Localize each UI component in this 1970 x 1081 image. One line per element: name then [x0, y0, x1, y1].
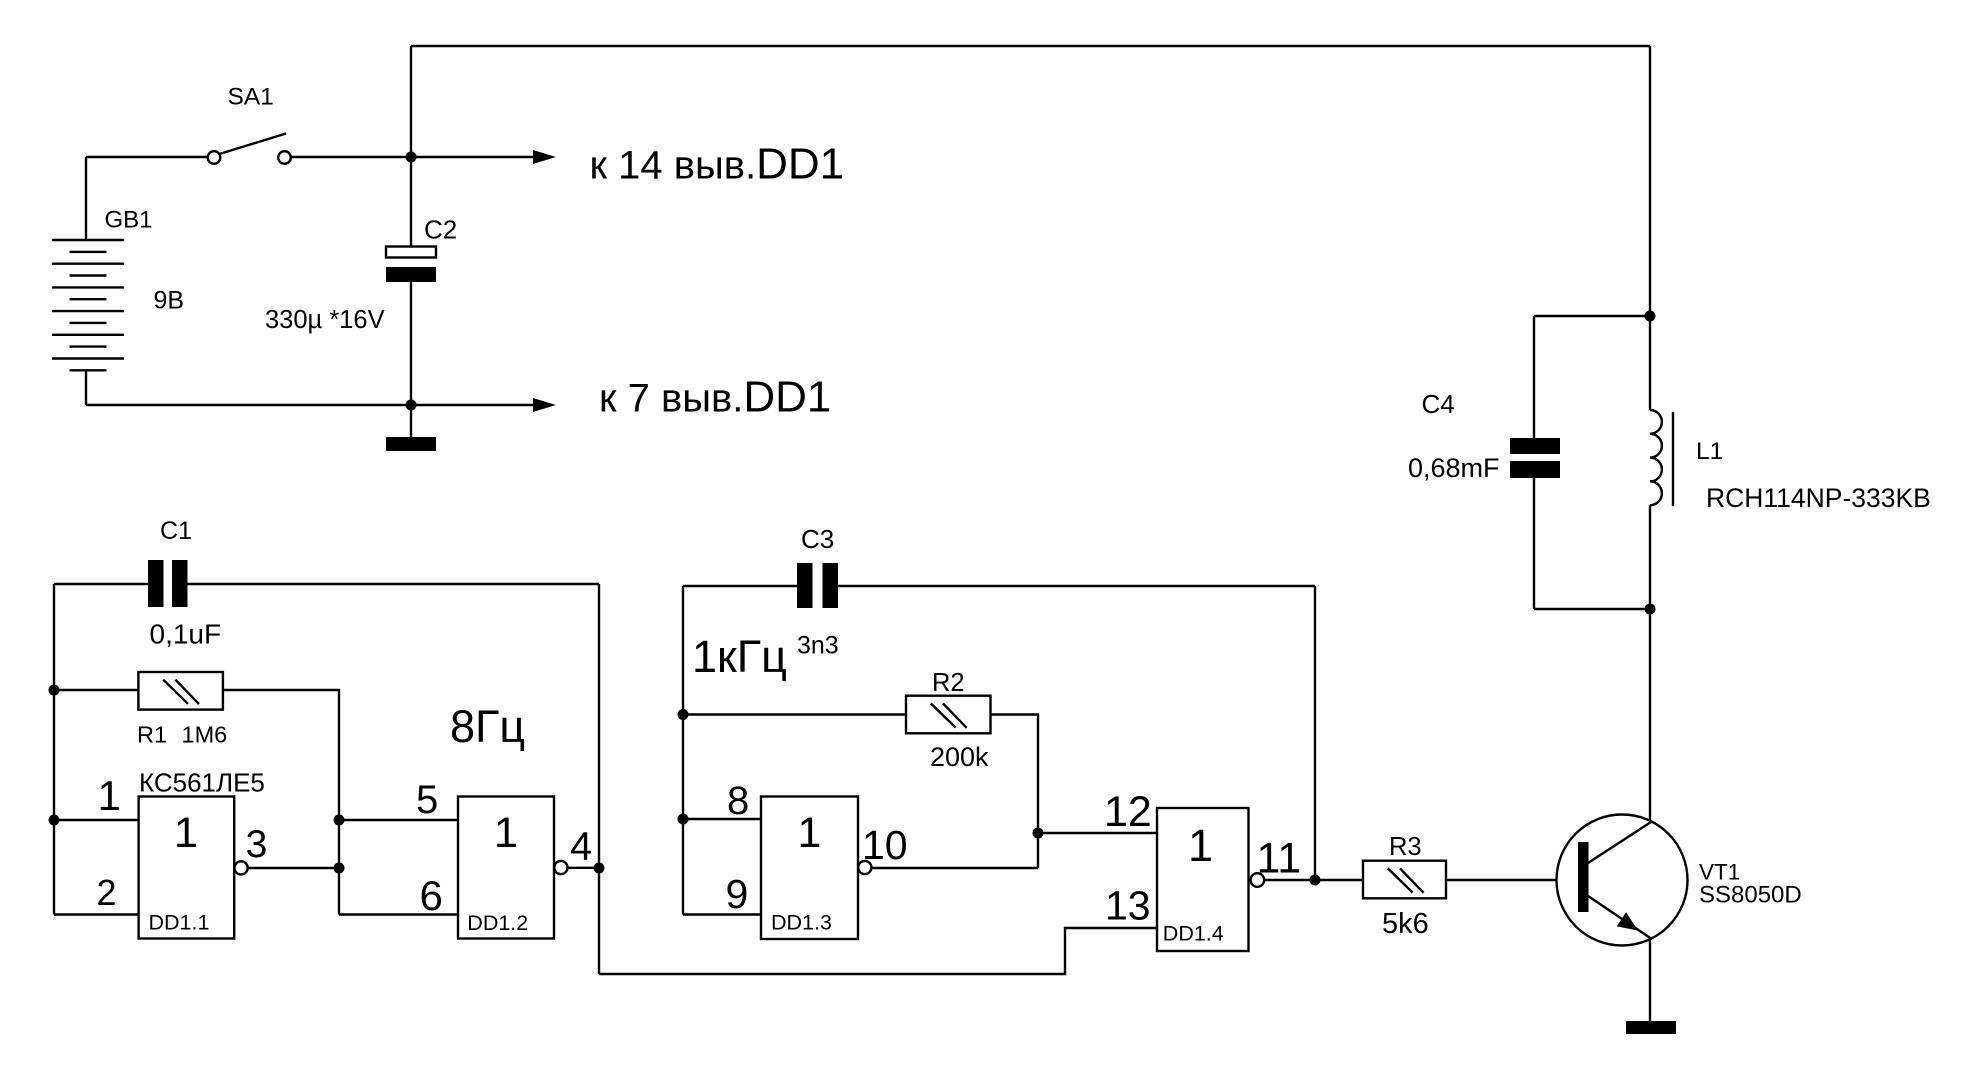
ground below C2 [386, 437, 436, 451]
wire top rail drop to node A [410, 46, 412, 157]
wire C1 right lead [188, 583, 600, 585]
wire R1 left lead [54, 689, 138, 691]
node K junction [1033, 828, 1044, 839]
node A junction [406, 152, 417, 163]
svg-text:8Гц: 8Гц [450, 701, 525, 752]
svg-text:GB1: GB1 [105, 207, 153, 234]
node F junction [49, 815, 60, 826]
wire pin4 to node [568, 867, 599, 869]
svg-text:0,1uF: 0,1uF [150, 619, 222, 650]
svg-text:C4: C4 [1422, 389, 1455, 419]
switch SA1 [208, 134, 291, 164]
capacitor C1 [148, 560, 188, 607]
bubble pin 11 [1251, 873, 1265, 887]
wire osc2 left vertical [682, 586, 684, 915]
arrow to 14 pin DD1 [533, 150, 556, 164]
wire pin8 [683, 818, 761, 820]
svg-text:DD1.3: DD1.3 [771, 911, 832, 935]
wire pin9 [683, 913, 761, 915]
node L junction [678, 814, 689, 825]
node G junction [334, 815, 345, 826]
node M junction [1310, 875, 1321, 886]
svg-text:C3: C3 [801, 524, 834, 554]
svg-text:R1: R1 [137, 722, 167, 748]
svg-text:9: 9 [726, 871, 749, 917]
capacitor C2 [386, 247, 436, 283]
bubble pin 3 [235, 861, 248, 874]
wire bottom link to pin13 [599, 928, 1157, 974]
svg-text:3: 3 [246, 823, 268, 866]
svg-text:1: 1 [174, 809, 198, 857]
wire R3 to base [1446, 879, 1578, 881]
wire pin1 [54, 819, 139, 821]
wire right rail down [1649, 46, 1651, 316]
svg-text:C2: C2 [424, 215, 457, 245]
gate DD1.3 [761, 797, 858, 940]
wire emitter lead [1649, 939, 1651, 1022]
svg-text:6: 6 [420, 872, 443, 919]
gate DD1.2 [458, 797, 554, 939]
wire osc1 left vertical [53, 584, 55, 915]
svg-text:5k6: 5k6 [1382, 908, 1429, 940]
wire C1 left lead [54, 583, 148, 585]
svg-text:SA1: SA1 [228, 84, 274, 111]
svg-text:5: 5 [416, 778, 438, 822]
wire R1 right lead [222, 690, 339, 915]
wire C2 to node B [410, 282, 412, 405]
svg-text:0,68mF: 0,68mF [1408, 453, 1500, 483]
resistor R2 [906, 696, 991, 734]
svg-text:4: 4 [570, 825, 592, 869]
transistor VT1 [1557, 815, 1688, 946]
wire collector lead [1649, 609, 1651, 822]
svg-text:к 7 выв.DD1: к 7 выв.DD1 [599, 373, 831, 422]
svg-text:200k: 200k [930, 742, 989, 772]
svg-text:330µ *16V: 330µ *16V [265, 306, 385, 334]
bubble pin 4 [554, 861, 567, 874]
wire pin6 [339, 913, 459, 915]
wire C3 right lead [838, 585, 1315, 587]
node D junction [1645, 604, 1656, 615]
svg-text:R2: R2 [932, 669, 965, 697]
wire pin3 to node [248, 867, 339, 869]
arrow to 7 pin DD1 [533, 398, 556, 412]
wire C3 left lead [683, 585, 797, 587]
svg-text:RCH114NP-333KB: RCH114NP-333KB [1706, 483, 1931, 513]
wire pin2 [54, 913, 139, 915]
svg-text:SS8050D: SS8050D [1699, 882, 1802, 909]
node J junction [678, 709, 689, 720]
wire R2 right lead [990, 715, 1038, 869]
wire pin5 [339, 819, 459, 821]
wire pin11 to R3 [1264, 879, 1363, 881]
svg-text:DD1.1: DD1.1 [149, 911, 210, 935]
capacitor C3 [797, 563, 838, 608]
svg-text:1M6: 1M6 [182, 722, 228, 748]
wire osc1 right vertical [598, 584, 600, 974]
svg-text:C1: C1 [160, 517, 192, 545]
wire pin12 [1038, 832, 1157, 834]
svg-text:DD1.2: DD1.2 [467, 911, 528, 935]
svg-text:2: 2 [97, 872, 117, 913]
battery GB1 [52, 157, 124, 405]
svg-text:к 14 выв.DD1: к 14 выв.DD1 [590, 140, 845, 189]
node I junction [594, 863, 605, 874]
wire C4 top link [1534, 315, 1650, 317]
wire osc2 right vertical [1314, 586, 1316, 880]
bubble pin 10 [858, 861, 871, 874]
wire switch to node A [291, 156, 535, 158]
wire C4 bottom link [1534, 608, 1650, 610]
wire node B to ground [410, 405, 412, 437]
gate DD1.1 [139, 797, 235, 939]
resistor R1 [138, 672, 223, 710]
wire pin10 to R2 branch [872, 867, 1038, 869]
inductor L1 [1650, 316, 1673, 609]
wire R2 left lead [683, 713, 906, 715]
svg-text:1: 1 [1188, 820, 1213, 871]
wire top rail [411, 45, 1650, 47]
wire battery plus to switch [86, 156, 207, 158]
svg-text:10: 10 [862, 822, 908, 868]
svg-text:9В: 9В [154, 287, 185, 315]
svg-text:12: 12 [1104, 788, 1152, 836]
resistor R3 [1363, 861, 1446, 899]
svg-text:8: 8 [727, 779, 749, 823]
gate DD1.4 [1157, 808, 1249, 951]
node C junction [1645, 311, 1656, 322]
svg-text:3n3: 3n3 [797, 632, 839, 660]
svg-text:R3: R3 [1389, 833, 1422, 861]
capacitor C4 [1510, 438, 1560, 478]
svg-text:КС561ЛЕ5: КС561ЛЕ5 [139, 768, 265, 798]
svg-text:13: 13 [1105, 883, 1151, 929]
node B junction [406, 400, 417, 411]
wire battery minus rail [86, 404, 535, 406]
ground below VT1 [1626, 1021, 1676, 1034]
svg-text:11: 11 [1257, 835, 1302, 883]
svg-text:DD1.4: DD1.4 [1163, 922, 1224, 946]
svg-text:1: 1 [798, 809, 822, 857]
node E junction [49, 685, 60, 696]
node H junction [334, 863, 345, 874]
wire C4 bottom lead [1533, 478, 1535, 609]
svg-text:1: 1 [494, 809, 518, 857]
svg-text:1: 1 [98, 772, 121, 819]
svg-text:1кГц: 1кГц [692, 631, 787, 682]
wire node A to C2 [410, 157, 412, 246]
svg-text:L1: L1 [1696, 438, 1723, 465]
wire C4 top lead [1533, 316, 1535, 438]
